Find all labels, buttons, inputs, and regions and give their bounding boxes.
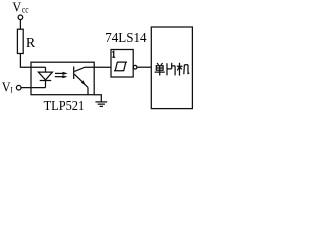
svg-text:74LS14: 74LS14 (105, 31, 146, 46)
net Vcc label (12, 1, 28, 16)
phototransistor base bar (73, 67, 75, 80)
LED anode lead (45, 67, 47, 72)
svg-text:V: V (2, 80, 11, 95)
wire 74LS14 to MCU (137, 66, 151, 68)
label pian (CJK) (167, 63, 175, 76)
LED cathode bar (40, 80, 52, 82)
wire R to LED anode (20, 54, 45, 68)
wire Vcc to R (19, 20, 21, 30)
resistor R (17, 29, 23, 53)
schmitt hysteresis symbol (114, 62, 127, 71)
net Vi label (2, 80, 13, 95)
label dan (CJK) (155, 63, 165, 76)
light arrow 1 (55, 72, 68, 75)
inverter output bubble (133, 65, 137, 69)
LED cathode lead (45, 81, 47, 88)
svg-text:TLP521: TLP521 (44, 99, 85, 114)
terminal Vcc (18, 15, 23, 20)
svg-text:cc: cc (22, 5, 29, 15)
MCU box (151, 27, 192, 109)
svg-text:I: I (10, 86, 13, 95)
emitter drop to box bottom (87, 87, 89, 94)
label 1 (112, 51, 115, 57)
optocoupler box TLP521 (31, 62, 94, 94)
svg-text:R: R (26, 36, 36, 51)
phototransistor emitter lead (74, 74, 88, 87)
LED (triangle) (38, 72, 52, 80)
light arrow 2 (55, 75, 68, 78)
wire LED cathode to Vi terminal (21, 87, 46, 89)
wire collector to 74LS14 input (85, 66, 111, 68)
terminal Vi (16, 85, 21, 90)
ground (95, 102, 107, 107)
schmitt inverter U1 box (111, 50, 133, 78)
label ji (CJK) (177, 63, 189, 76)
wire box corner to ground (94, 95, 101, 102)
phototransistor collector lead (74, 67, 85, 71)
svg-text:V: V (12, 1, 21, 16)
